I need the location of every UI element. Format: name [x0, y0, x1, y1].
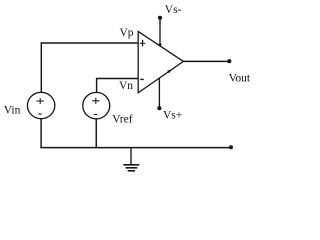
svg-text:Vn: Vn — [119, 80, 133, 92]
arrowhead at top edge junction — [158, 44, 162, 48]
output terminal dot — [227, 59, 231, 63]
svg-text:Vs+: Vs+ — [163, 109, 182, 121]
wire: output from apex — [183, 60, 229, 62]
voltage source Vref — [83, 92, 110, 119]
svg-text:Vin: Vin — [4, 104, 21, 116]
svg-text:Vp: Vp — [120, 27, 134, 39]
arrowhead on bottom edge of triangle — [167, 70, 172, 74]
ground rail — [40, 147, 231, 149]
wire: below Vref to ground rail — [95, 119, 97, 148]
wire: Vn horizontal into - input — [97, 78, 139, 80]
op-amp U1 triangle — [138, 32, 183, 93]
wire: below Vin to ground rail — [40, 119, 42, 148]
Vs- supply branch — [158, 16, 162, 20]
wire: top horizontal to op-amp + input — [41, 42, 138, 44]
op-amp - input mark — [140, 78, 143, 80]
op-amp + input mark — [140, 40, 145, 47]
wire: vertical from Vn corner down to Vref source — [96, 78, 98, 93]
svg-text:Vref: Vref — [112, 114, 133, 126]
Vs+ supply branch — [157, 106, 161, 110]
wire: left vertical from corner down to Vin source — [40, 42, 42, 92]
ground symbol — [130, 148, 132, 165]
voltage source Vin — [27, 92, 54, 118]
svg-text:Vout: Vout — [229, 73, 251, 85]
svg-text:Vs-: Vs- — [165, 4, 182, 16]
rail right terminal dot — [229, 145, 233, 149]
